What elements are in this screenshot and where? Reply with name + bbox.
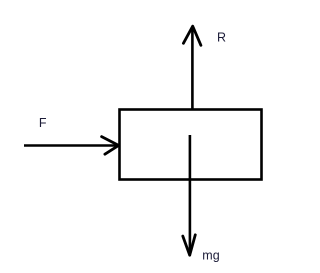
- svg-text:mg: mg: [202, 249, 219, 263]
- svg-text:R: R: [217, 31, 226, 45]
- svg-text:F: F: [39, 116, 47, 130]
